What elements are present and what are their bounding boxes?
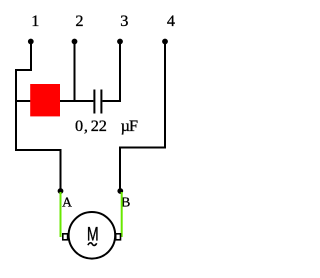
motor right terminal square: [116, 234, 121, 240]
terminal 4 pin dot: [162, 39, 168, 45]
svg-text:0,22µF: 0,22µF: [75, 116, 138, 135]
motor M1 body circle: [69, 212, 116, 259]
svg-text:2: 2: [75, 11, 83, 30]
wire: horizontal to node B drop: [120, 147, 166, 149]
motor left terminal square: [63, 234, 68, 240]
wire: drop down to node B: [119, 147, 121, 192]
wire: terminal 4 stub down: [164, 42, 166, 149]
wire: capacitor to terminal 3 corner: [102, 100, 120, 102]
wire: drop down to node A: [60, 149, 62, 191]
terminal 2 pin dot: [72, 39, 78, 45]
wire: terminal 1 stub down: [30, 42, 32, 71]
svg-text:4: 4: [167, 11, 175, 30]
terminal 3 pin dot: [117, 39, 123, 45]
motor AC tilde: [88, 243, 97, 246]
svg-text:A: A: [62, 194, 72, 209]
wire: terminal 3 stub down: [119, 42, 121, 103]
node A dot: [58, 188, 64, 194]
component: red box (starting element): [30, 84, 60, 116]
wire: left rail to red box: [16, 100, 30, 102]
wire: red box to capacitor: [60, 100, 93, 102]
svg-text:M: M: [87, 224, 99, 245]
terminal 1 pin dot: [28, 39, 34, 45]
green wire: node A to motor left terminal: [60, 192, 62, 237]
green wire: node B to motor right terminal: [121, 192, 123, 237]
node B dot: [117, 188, 123, 194]
wire: horizontal jog to left rail: [16, 69, 32, 71]
capacitor right plate: [100, 90, 102, 114]
capacitor left plate: [93, 90, 95, 114]
wire: terminal 2 stub down to junction: [74, 42, 76, 103]
wire: bottom horizontal to node A drop: [15, 149, 61, 151]
svg-text:3: 3: [120, 11, 128, 30]
svg-text:1: 1: [31, 11, 39, 30]
wire: left vertical rail: [15, 69, 17, 150]
